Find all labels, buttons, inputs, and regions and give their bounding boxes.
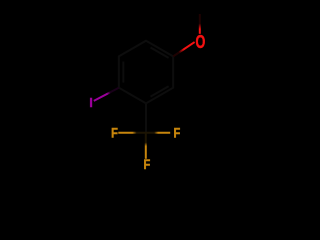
svg-text:F: F — [144, 156, 151, 172]
bond C2-CF3 — [145, 103, 147, 133]
bond C-F right — [146, 132, 170, 134]
aromatic inner bond 2 — [151, 86, 169, 96]
bond C3-I — [94, 88, 119, 101]
benzene ring — [119, 41, 173, 104]
bond O-CH3 — [199, 14, 201, 34]
svg-text:F: F — [174, 125, 181, 141]
aromatic inner bond 3 — [122, 62, 124, 83]
svg-text:F: F — [111, 125, 118, 141]
svg-text:I: I — [89, 95, 93, 110]
bond C-F left — [118, 132, 146, 134]
svg-text:O: O — [196, 32, 206, 52]
aromatic inner bond 1 — [151, 48, 169, 58]
bond C-F bottom — [145, 133, 147, 159]
bond C1-O — [173, 42, 194, 56]
